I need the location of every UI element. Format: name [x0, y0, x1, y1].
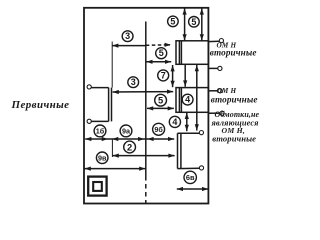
svg-text:Первичные: Первичные — [11, 99, 70, 111]
svg-text:1б: 1б — [96, 126, 105, 135]
svg-text:5: 5 — [191, 17, 196, 27]
svg-text:5: 5 — [158, 95, 163, 106]
svg-text:3: 3 — [131, 77, 136, 87]
svg-text:7: 7 — [161, 70, 166, 80]
svg-text:5: 5 — [159, 48, 164, 58]
svg-text:3: 3 — [125, 31, 130, 41]
svg-text:9б: 9б — [154, 125, 163, 134]
svg-text:2: 2 — [127, 142, 132, 153]
svg-text:вторичные: вторичные — [210, 47, 257, 57]
svg-text:4: 4 — [185, 95, 190, 105]
svg-text:9а: 9а — [122, 126, 131, 135]
svg-text:9в: 9в — [98, 153, 107, 162]
svg-text:4: 4 — [172, 117, 177, 127]
svg-text:6в: 6в — [186, 173, 195, 182]
svg-text:вторичные: вторичные — [211, 95, 258, 105]
svg-text:5: 5 — [170, 16, 175, 26]
svg-text:вторичные: вторичные — [212, 134, 256, 144]
